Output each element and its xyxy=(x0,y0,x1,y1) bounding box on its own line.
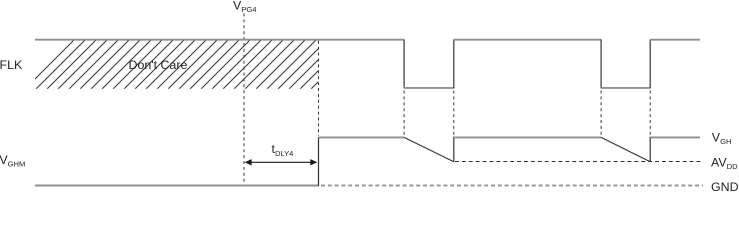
svg-text:VPG4: VPG4 xyxy=(233,0,256,14)
GND dashed level line xyxy=(321,185,703,187)
dashed connector at x=404 xyxy=(403,91,405,136)
FLK don't-care hatch fill xyxy=(25,40,360,89)
svg-text:VGH: VGH xyxy=(712,131,732,147)
svg-text:AVDD: AVDD xyxy=(711,155,738,171)
V_GHM rising edge at x=318 xyxy=(318,137,320,186)
FLK rising edge 2 xyxy=(649,40,651,89)
V_GHM ramp 1 xyxy=(404,137,454,161)
svg-text:Don't Care: Don't Care xyxy=(129,58,188,72)
FLK high segment 1 (over hatch) xyxy=(35,39,404,41)
hatch right dashed edge / connector at x=318 xyxy=(318,41,320,136)
svg-text:tDLY4: tDLY4 xyxy=(272,142,294,158)
FLK falling edge 1 xyxy=(403,40,405,89)
FLK low segment 1 xyxy=(404,87,454,89)
V_GHM step-up edge 2 xyxy=(649,137,651,162)
svg-text:GND: GND xyxy=(711,180,739,192)
V_GHM step-up edge 1 xyxy=(453,137,455,162)
FLK low segment 2 xyxy=(601,87,650,89)
V_GHM V_GH segment 3 xyxy=(650,136,700,138)
t_DLY4 dimension arrow xyxy=(245,159,318,165)
FLK rising edge 1 xyxy=(453,40,455,89)
AV_DD dashed level line xyxy=(455,161,702,163)
V_GHM V_GH segment 2 xyxy=(454,136,601,138)
dashed connector at x=650 xyxy=(649,91,651,136)
V_PG4 threshold dashed vertical line xyxy=(243,14,245,184)
V_GHM V_GH segment 1 xyxy=(319,136,405,138)
dashed connector at x=453 xyxy=(453,91,455,136)
svg-text:FLK: FLK xyxy=(0,58,23,72)
dashed connector at x=601 xyxy=(600,91,602,136)
svg-text:VGHM: VGHM xyxy=(0,153,25,169)
FLK high segment 2 xyxy=(454,39,601,41)
V_GHM GND-level segment xyxy=(35,185,319,187)
FLK high segment 3 xyxy=(650,39,700,41)
V_GHM ramp 2 xyxy=(601,137,650,161)
FLK falling edge 2 xyxy=(600,40,602,89)
